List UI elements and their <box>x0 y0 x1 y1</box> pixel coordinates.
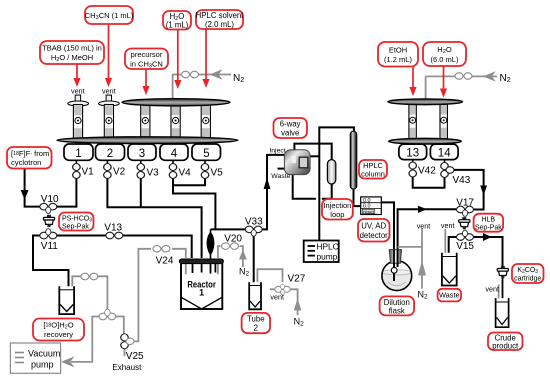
K2CO3 cartridge <box>497 266 508 278</box>
svg-text:Sep-Pak: Sep-Pak <box>62 223 89 230</box>
svg-text:Sep-Pak: Sep-Pak <box>475 224 502 231</box>
gray bowtie recovery line <box>81 273 98 280</box>
wire V33 to Tube2 dip <box>253 232 255 301</box>
svg-text:TBAB (150 mL) in: TBAB (150 mL) in <box>42 44 102 53</box>
valve V10 <box>40 194 59 214</box>
callout HPLC column <box>359 160 387 179</box>
condenser cigar <box>207 229 215 259</box>
valve V13 <box>104 223 123 239</box>
manifold bottom ellipse right <box>389 138 462 144</box>
exhaust label <box>112 363 142 372</box>
gray junction to vacuum pump <box>61 317 101 368</box>
callout waste <box>438 289 462 302</box>
valve V20 <box>222 233 243 249</box>
gray arrow right N2 <box>483 71 496 81</box>
gray bowtie right N2 <box>455 73 472 80</box>
svg-text:(1.2 mL): (1.2 mL) <box>384 55 412 64</box>
svg-text:V17: V17 <box>456 197 474 208</box>
manifold bottom ellipse left <box>57 137 238 144</box>
callout HLB Sep-Pak <box>474 214 504 232</box>
injection loop coil <box>327 160 335 184</box>
vial 13 <box>409 104 416 139</box>
svg-text:V43: V43 <box>453 175 471 186</box>
svg-text:V5: V5 <box>211 168 224 179</box>
svg-text:2: 2 <box>254 324 258 333</box>
gray V27 N2 line <box>288 289 302 315</box>
svg-text:in CH3CN: in CH3CN <box>130 59 163 69</box>
callout HPLC solvent <box>196 10 245 88</box>
port box 2 <box>96 144 125 165</box>
vent label crude <box>485 285 499 294</box>
N2 label right manifold <box>500 73 511 84</box>
waste label <box>271 173 290 180</box>
wire 6way bottom port to loop bottom <box>293 174 332 198</box>
callout Tube 2 <box>242 313 271 333</box>
inject label <box>269 147 285 154</box>
valve V17 <box>456 197 474 216</box>
wire 6way waste stub <box>278 168 286 170</box>
callout EtOH <box>378 42 418 96</box>
N2 label reactor <box>239 267 250 278</box>
callout K2CO3 cartridge <box>512 264 544 283</box>
svg-text:vent: vent <box>71 86 85 95</box>
svg-text:recovery: recovery <box>44 330 73 339</box>
svg-text:K2CO3: K2CO3 <box>517 267 538 275</box>
svg-text:V13: V13 <box>104 223 122 234</box>
svg-text:1: 1 <box>75 148 81 160</box>
tube 2 vessel <box>249 282 261 309</box>
svg-text:valve: valve <box>281 129 299 138</box>
svg-text:V2: V2 <box>113 167 126 178</box>
svg-text:vent: vent <box>441 221 455 230</box>
gray N2 line right manifold horizontal <box>426 75 497 77</box>
reactor label <box>187 280 216 298</box>
svg-text:vent: vent <box>102 86 116 95</box>
callout precursor <box>125 49 168 96</box>
callout PS-HCO3 Sep-Pak <box>59 213 94 231</box>
svg-text:5: 5 <box>203 148 209 160</box>
N2 label left manifold <box>233 73 244 84</box>
svg-text:reset: reset <box>363 209 374 215</box>
vial 1 <box>68 95 89 139</box>
callout TBAB <box>40 41 104 87</box>
vent label V27 <box>270 293 284 302</box>
svg-text:HPLC solvent: HPLC solvent <box>196 11 245 20</box>
svg-text:V3: V3 <box>147 168 160 179</box>
callout H2O 1mL <box>163 11 191 89</box>
svg-text:1: 1 <box>199 287 204 297</box>
callout H2O 6mL <box>423 42 466 98</box>
svg-text:detector: detector <box>360 231 389 240</box>
gray flask vent tree <box>398 229 426 289</box>
HPLC column <box>350 131 357 189</box>
vial 14 <box>440 104 447 139</box>
svg-text:V42: V42 <box>418 166 436 177</box>
dilution flask <box>382 250 412 291</box>
svg-text:UV, AD: UV, AD <box>361 222 386 231</box>
reactor vessel <box>181 263 222 309</box>
wire cyclotron arrow to V10 <box>21 168 41 207</box>
gray tube2 to V27 line <box>257 269 282 282</box>
vial 4 <box>171 105 180 140</box>
port box 3 <box>128 144 156 165</box>
port box 1 <box>64 144 93 165</box>
reactor lid <box>179 259 223 264</box>
svg-text:Injection: Injection <box>323 201 351 210</box>
svg-text:pump: pump <box>31 360 54 370</box>
crude product tube <box>496 298 509 327</box>
callout crude product <box>488 333 523 351</box>
N2 label V27 <box>294 317 305 328</box>
vent label vial2 <box>102 86 116 95</box>
svg-text:vent: vent <box>417 221 431 230</box>
wire detector to flask <box>381 202 394 281</box>
gray junction 3way petals <box>99 309 116 319</box>
valve V2 <box>104 164 126 179</box>
vial 2 <box>99 95 120 139</box>
valve V43 <box>441 163 471 186</box>
svg-text:CH3CN (1 mL): CH3CN (1 mL) <box>85 11 134 21</box>
wire V1 to V10 <box>56 178 76 207</box>
svg-text:precursor: precursor <box>131 50 163 59</box>
svg-text:V11: V11 <box>41 241 58 252</box>
gray arrow left N2 <box>210 69 223 79</box>
svg-text:cyclotron: cyclotron <box>11 158 41 167</box>
valve V5 <box>201 164 223 179</box>
svg-text:V33: V33 <box>245 217 263 228</box>
svg-text:6-way: 6-way <box>280 120 301 129</box>
svg-text:product: product <box>492 342 519 351</box>
gray vertical right manifold N2 <box>425 76 427 100</box>
callout UV AD detector <box>358 219 390 242</box>
waste tube <box>442 253 457 286</box>
svg-text:V27: V27 <box>288 273 306 284</box>
gray crude vent line <box>498 285 500 309</box>
svg-text:HPLC: HPLC <box>317 242 339 252</box>
callout F18 from cyclotron <box>7 147 52 169</box>
vent label vial1 <box>71 86 85 95</box>
svg-text:4: 4 <box>171 148 178 160</box>
valve V25 <box>121 334 144 362</box>
gray V24 loop line <box>134 249 186 342</box>
wire V2-V3 to reactor <box>107 178 201 259</box>
wire V15 to waste tube <box>449 237 456 266</box>
svg-text:14: 14 <box>438 148 451 160</box>
svg-text:V10: V10 <box>41 194 59 205</box>
port box 4 <box>160 144 188 165</box>
valve V3 <box>137 164 159 179</box>
wire V42 V43 to V17 elbow <box>413 170 487 210</box>
wire V11 to V13 to reactor <box>56 236 192 259</box>
gray V27 vent stub <box>270 288 277 290</box>
valve V15 <box>456 230 474 252</box>
gray V20 line <box>218 246 247 267</box>
N2 label flask <box>418 290 429 301</box>
PS-HCO3 sep-pak cartridge <box>43 215 54 227</box>
wire condenser to V33 to inject riser <box>211 155 286 230</box>
svg-text:EtOH: EtOH <box>389 45 407 54</box>
svg-text:Tube: Tube <box>247 315 264 324</box>
valve V4 <box>169 164 191 179</box>
svg-text:V20: V20 <box>224 233 242 244</box>
port box 5 <box>192 144 221 165</box>
valve V27 <box>275 273 306 294</box>
valve V24 <box>153 246 174 267</box>
svg-text:pump: pump <box>317 252 338 262</box>
svg-text:loop: loop <box>330 210 344 219</box>
wire K2CO3 to crude tube <box>502 277 504 317</box>
port box 13 <box>399 144 427 164</box>
gray recovery vent line to junction <box>72 276 107 310</box>
reactor internal tubes <box>186 263 218 275</box>
svg-text:vent: vent <box>270 293 284 302</box>
wire 6way top port to injection loop top <box>294 144 331 160</box>
vial 5 <box>201 105 210 140</box>
svg-text:0.0: 0.0 <box>363 204 371 210</box>
wire column to detector <box>354 189 361 207</box>
svg-text:V15: V15 <box>456 241 474 252</box>
svg-text:column: column <box>361 169 385 178</box>
gray waste vent line <box>444 229 446 262</box>
wire V11 to recovery vial <box>33 236 69 303</box>
svg-text:V4: V4 <box>179 168 192 179</box>
svg-text:Inject: Inject <box>269 147 285 154</box>
wire V4-V5 to condenser top <box>173 178 215 230</box>
gray N2 line left manifold <box>173 75 231 102</box>
svg-text:V24: V24 <box>156 255 174 266</box>
svg-text:Vacuum: Vacuum <box>28 349 60 359</box>
svg-text:2: 2 <box>107 148 113 160</box>
six-way valve body <box>284 150 310 175</box>
callout CH3CN <box>85 6 134 87</box>
manifold top ellipse right <box>388 99 463 105</box>
svg-text:V25: V25 <box>126 351 144 362</box>
HPLC pump box <box>304 241 339 263</box>
svg-text:Waste: Waste <box>439 291 460 300</box>
gray bowtie left N2 <box>182 71 199 78</box>
valve V11 <box>40 229 58 252</box>
callout O18 H2O recovery <box>33 319 84 341</box>
svg-text:(2.0 mL): (2.0 mL) <box>205 20 234 29</box>
svg-text:3: 3 <box>139 148 145 160</box>
wire V15 to K2CO3 with arrow <box>474 233 503 266</box>
svg-text:flask: flask <box>389 306 405 315</box>
svg-text:13: 13 <box>406 148 419 160</box>
svg-text:HLB: HLB <box>481 216 495 223</box>
vial 3 <box>141 105 150 140</box>
recovery vial <box>59 286 74 314</box>
svg-text:Exhaust: Exhaust <box>112 363 142 372</box>
callout 6-way valve <box>274 118 308 138</box>
gray junction to V25 <box>114 317 124 335</box>
manifold top ellipse left <box>122 99 230 106</box>
svg-text:Waste: Waste <box>271 173 290 180</box>
port box 14 <box>430 144 458 164</box>
valve V1 <box>73 164 95 179</box>
wire flask to V17 with arrow <box>398 206 456 267</box>
HLB sep-pak cartridge <box>459 217 470 229</box>
svg-text:vent: vent <box>485 285 499 294</box>
vent label waste <box>441 221 455 230</box>
callout dilution flask <box>380 296 415 315</box>
svg-text:(1 mL): (1 mL) <box>166 21 189 30</box>
callout injection loop <box>322 199 353 220</box>
gray V25 exhaust line <box>124 349 126 357</box>
valve V42 <box>409 162 436 177</box>
svg-text:(6.0 mL): (6.0 mL) <box>431 55 459 64</box>
svg-text:V1: V1 <box>82 167 95 178</box>
svg-text:PS-HCO3: PS-HCO3 <box>62 215 92 223</box>
vacuum pump box <box>10 343 60 373</box>
svg-text:cartridge: cartridge <box>514 275 541 282</box>
wire pump riser and column feed <box>310 127 354 241</box>
valve V33 <box>245 217 263 237</box>
vent label flask <box>417 221 431 230</box>
UV AD detector display <box>361 197 382 215</box>
